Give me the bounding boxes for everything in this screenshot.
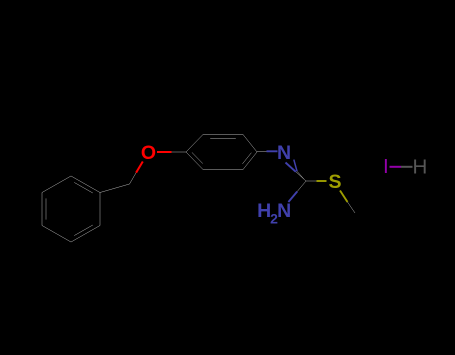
svg-text:N: N <box>277 200 291 222</box>
svg-text:N: N <box>277 142 291 164</box>
svg-text:O: O <box>141 142 156 164</box>
svg-text:S: S <box>328 171 341 193</box>
svg-text:H: H <box>412 155 427 178</box>
svg-text:I: I <box>383 155 389 178</box>
